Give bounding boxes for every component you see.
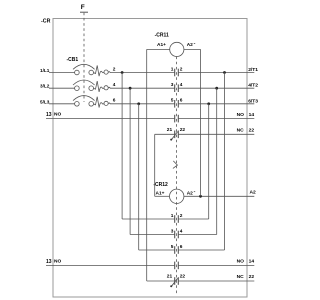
breaker CB1 pole 3 [73,96,110,108]
wire row CR12 1-2 [122,218,175,220]
wire row NO/14 bottom right [178,264,254,266]
wire vertical T3 to CR12 contact 2 [208,104,210,219]
svg-text:5: 5 [171,244,174,250]
node junction row4 right [215,87,218,90]
wire row 21/22 top left [155,133,175,135]
node junction row2 right [223,71,226,74]
contact CR12 5-6 [175,246,179,254]
svg-text:-CR: -CR [41,19,51,25]
wire row NO/14 top right [178,118,254,120]
contact CR11 NO aux [175,115,179,123]
wire row CR12 5-6 [139,249,175,251]
svg-text:6: 6 [180,98,183,104]
node F terminal bar [80,11,88,13]
wire row 4/T2 right of contact [178,87,254,89]
svg-text:A1+: A1+ [156,191,165,197]
wire vertical CR11 A2 to node A2 [200,49,202,196]
svg-text:4: 4 [113,82,116,88]
svg-text:NO: NO [54,259,61,265]
wire row L2 left [49,87,75,89]
node junction A2 [199,195,202,198]
svg-text:A2: A2 [250,190,257,196]
svg-text:-CR11: -CR11 [155,33,169,39]
svg-text:2/T1: 2/T1 [248,67,258,73]
svg-text:3: 3 [171,228,174,234]
contact CR11 5-6 [175,100,179,108]
wire row 2/T1 right of contact [178,72,254,74]
wire row 2 to contact [110,72,175,74]
svg-text:5: 5 [171,98,174,104]
wire row L1 left [49,72,75,74]
svg-text:F: F [81,4,85,11]
contact CR11 3-4 [175,84,179,92]
wire row L3 left [49,103,75,105]
relay coil CR12 [153,182,254,204]
svg-text:-CB1: -CB1 [67,57,79,63]
wire dashed mechanism CR11/CR12 [176,57,178,295]
outer enclosure box -CR [53,19,247,298]
svg-text:4/T2: 4/T2 [248,83,258,89]
svg-text:NC: NC [237,128,245,134]
contact CR11 1-2 [175,69,179,77]
wire dashed mechanism line from F through CB1 poles [83,13,85,102]
svg-text:22: 22 [180,274,186,280]
node junction row6 left [137,102,140,105]
wire row CR12 21-22 left [147,280,175,282]
wire vertical T2 to CR12 contact 4 [216,88,218,234]
svg-text:21: 21 [167,274,173,280]
wire row 4 to contact [110,87,175,89]
wire vertical row6 to CR12 contact 5 [138,104,140,250]
svg-text:22: 22 [249,128,255,134]
node junction row6 right [207,102,210,105]
wire row CR12 3-4 [130,234,175,236]
node junction row2 left [121,71,124,74]
svg-text:14: 14 [249,112,255,118]
svg-text:14: 14 [249,259,255,265]
svg-text:NC: NC [237,274,245,280]
wire row NC/22 bottom right [178,280,254,282]
wire vertical CR11 NC 21 to CR12 A1 [154,134,156,196]
node junction row4 left [129,87,132,90]
svg-text:A2: A2 [187,191,193,197]
svg-text:3/L2: 3/L2 [40,84,50,89]
mechanical latch chevron [173,161,178,169]
svg-text:6/T3: 6/T3 [248,98,258,104]
svg-text:2: 2 [180,213,183,219]
wire row 6/T3 right of contact [178,103,254,105]
svg-text:1/L1: 1/L1 [40,68,50,73]
svg-text:2: 2 [180,66,183,72]
svg-text:22: 22 [249,274,255,280]
svg-text:-CR12: -CR12 [153,182,168,188]
wire vertical row4 to CR12 contact 3 [129,88,131,234]
svg-text:13: 13 [46,259,52,265]
svg-text:13: 13 [46,112,52,118]
wire row 6 to contact [110,103,175,105]
contact CR11 21-22 NC [171,131,178,141]
svg-text:A2: A2 [187,42,193,48]
svg-text:4: 4 [180,82,183,88]
svg-text:5/L3: 5/L3 [40,99,50,104]
relay coil CR11 [147,33,201,57]
contact CR12 21-22 NC [171,277,178,287]
wire row 13/NO top [46,118,175,120]
svg-text:22: 22 [180,127,186,133]
wire vertical T1 to CR12 contact 6 [224,73,226,251]
svg-text:1: 1 [171,213,174,219]
svg-text:21: 21 [167,127,173,133]
svg-text:6: 6 [180,244,183,250]
wire row 13/NO bottom [46,264,175,266]
svg-text:NO: NO [54,112,61,118]
svg-text:4: 4 [180,228,183,234]
wire vertical CR11 A1 to CR12 NC 21 [146,49,148,281]
svg-text:NO: NO [237,259,245,265]
svg-text:6: 6 [113,98,116,104]
svg-text:3: 3 [171,82,174,88]
svg-text:NO: NO [237,112,245,118]
wire vertical row2 to CR12 contact 1 [121,73,123,220]
breaker CB1 pole 2 [73,80,110,92]
svg-text:A1+: A1+ [157,42,166,48]
svg-text:2: 2 [113,66,116,72]
contact CR12 1-2 [175,215,179,223]
wire row NC/22 top right [178,133,254,135]
contact CR12 NO aux [175,262,179,270]
contact CR12 3-4 [175,231,179,239]
breaker CB1 pole 1 [73,64,110,76]
svg-text:1: 1 [171,66,174,72]
